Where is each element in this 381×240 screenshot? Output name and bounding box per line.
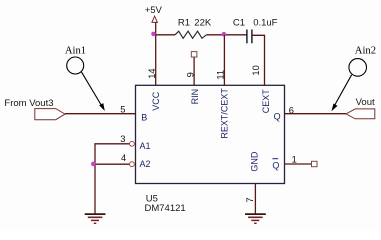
wire Q output (pin 6) [285,113,347,115]
node junction A1/A2 [91,162,96,167]
svg-text:GND: GND [249,151,259,172]
capacitor C1 [246,30,248,44]
svg-text:+5V: +5V [145,5,163,16]
wire Qbar (pin 1) [285,163,312,165]
svg-text:C1: C1 [233,18,245,29]
resistor R1 [175,31,207,38]
svg-text:10: 10 [251,65,261,75]
svg-text:6: 6 [289,106,294,116]
annotation Ain2 [331,45,376,111]
wire junction down to pin 11 [223,35,225,86]
svg-text:11: 11 [216,70,226,80]
node junction at +5V [151,32,156,37]
node junction at pin 11 [222,32,227,37]
svg-text:R1: R1 [178,18,190,29]
svg-text:Ain1: Ain1 [65,45,86,56]
svg-text:DM74121: DM74121 [145,203,186,214]
annotation Ain1 [65,45,105,111]
svg-text:Q: Q [272,160,279,170]
wire +5V stem down to VCC pin 14 [155,22,157,85]
svg-text:7: 7 [245,197,255,202]
no-connect square pin 9 [191,52,197,57]
wire top run to resistor [156,34,175,36]
wire resistor to capacitor [207,34,247,36]
svg-text:Ain2: Ain2 [355,45,376,56]
svg-text:22K: 22K [194,18,212,29]
pin 3 bubble [130,141,135,146]
svg-text:REXT/CEXT: REXT/CEXT [219,88,229,139]
svg-text:CEXT: CEXT [261,89,271,114]
svg-text:A1: A1 [140,141,151,151]
power +5V symbol [145,5,163,22]
svg-text:Vout: Vout [356,97,375,108]
wire B input (pin 5) [65,113,136,115]
svg-text:RIN: RIN [190,89,200,105]
pin 4 bubble [130,162,135,167]
svg-text:0.1uF: 0.1uF [253,18,277,29]
wire pin 9 to no-connect [193,57,195,85]
svg-text:Q: Q [274,111,281,121]
svg-text:B: B [141,113,147,123]
wire A1 (pin 3) [95,144,129,214]
wire capacitor to pin 10 [252,35,265,85]
svg-text:9: 9 [185,72,195,77]
svg-text:5: 5 [120,104,125,114]
svg-text:3: 3 [120,134,125,144]
wire A2 (pin 4) [93,163,129,165]
svg-text:1: 1 [292,154,297,164]
svg-text:From Vout3: From Vout3 [4,98,53,109]
svg-text:14: 14 [147,68,157,78]
svg-text:A2: A2 [140,159,151,169]
no-connect square pin 1 [312,161,318,166]
wire GND (pin 7) [254,184,256,215]
svg-text:4: 4 [121,153,126,163]
IC U5 DM74121 body [136,85,285,183]
ground symbol left [85,214,106,223]
svg-text:VCC: VCC [151,91,161,111]
ground symbol center [245,214,266,223]
